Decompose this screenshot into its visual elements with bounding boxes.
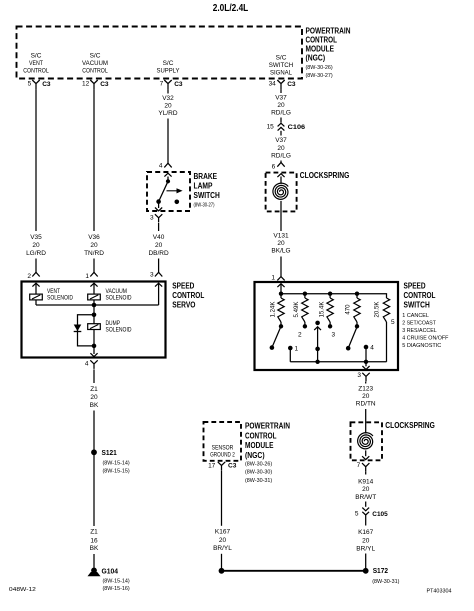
bus junction at R1 (279, 292, 283, 296)
svg-text:1 CANCEL: 1 CANCEL (402, 313, 429, 319)
svg-text:YL/RD: YL/RD (158, 110, 177, 117)
resistor 20.5K (383, 298, 389, 322)
svg-text:16: 16 (90, 537, 98, 544)
svg-text:3 RES/ACCEL: 3 RES/ACCEL (402, 328, 437, 334)
svg-text:CONTROL: CONTROL (23, 68, 49, 75)
resistor 470 (356, 294, 358, 298)
svg-text:CONTROL: CONTROL (404, 291, 436, 300)
clockspring (upper) box (266, 173, 297, 212)
svg-text:6: 6 (272, 163, 276, 170)
wire V40 from brake lamp switch to servo pin 3 (158, 223, 160, 231)
splice S121 (91, 449, 97, 455)
svg-text:DB/RD: DB/RD (148, 250, 169, 257)
svg-text:K167: K167 (215, 529, 231, 536)
contact 1 (288, 346, 293, 351)
svg-text:BK: BK (90, 545, 99, 552)
clockspring coil (lower) (358, 433, 373, 449)
svg-text:20: 20 (32, 242, 40, 249)
svg-text:C3: C3 (228, 463, 237, 470)
svg-text:C3: C3 (42, 81, 51, 88)
svg-text:20.5K: 20.5K (374, 302, 381, 318)
switch output wire to pin 3 (365, 362, 367, 367)
svg-text:20: 20 (90, 242, 98, 249)
svg-text:G104: G104 (102, 566, 119, 575)
svg-text:7: 7 (357, 462, 361, 469)
svg-text:15: 15 (267, 124, 275, 131)
bus junction at R3 (328, 292, 332, 296)
clockspring (lower) box (351, 422, 383, 460)
svg-text:S172: S172 (373, 566, 388, 575)
wire K914 lower segment (365, 502, 367, 507)
svg-text:S/C: S/C (31, 53, 42, 60)
svg-text:(8W-15-15): (8W-15-15) (103, 469, 130, 475)
PCM pin 17 connector C3 (lower) (218, 462, 225, 471)
svg-text:BR/YL: BR/YL (213, 545, 232, 552)
svg-text:C106: C106 (288, 124, 306, 131)
svg-text:3: 3 (150, 214, 154, 221)
svg-text:V32: V32 (162, 95, 174, 102)
svg-text:(NGC): (NGC) (245, 451, 265, 460)
switch top bus wire (281, 294, 387, 298)
svg-text:4: 4 (370, 344, 374, 351)
svg-text:C3: C3 (100, 81, 109, 88)
svg-text:BR/YL: BR/YL (356, 545, 375, 552)
svg-text:(8W-15-14): (8W-15-14) (103, 460, 130, 466)
svg-text:(8W-30-30): (8W-30-30) (245, 470, 272, 476)
svg-text:C105: C105 (372, 511, 388, 518)
svg-text:V35: V35 (30, 234, 42, 241)
svg-text:SERVO: SERVO (172, 301, 195, 310)
servo bus junction (92, 303, 97, 308)
wire K167 from PCM pin 17 (221, 471, 223, 526)
svg-text:SOLENOID: SOLENOID (47, 295, 73, 302)
servo pin 4 terminal (90, 360, 97, 369)
svg-text:20: 20 (90, 394, 98, 401)
svg-text:5.49K: 5.49K (293, 302, 300, 318)
resistor 20.5K lower lead (386, 322, 388, 362)
brake lamp switch pin 3 terminal (155, 214, 162, 222)
junction at splice bus (219, 568, 225, 574)
svg-text:2: 2 (27, 273, 31, 280)
wire V40 lower segment (158, 259, 160, 273)
svg-text:1: 1 (85, 273, 89, 280)
PCM pin 34 connector C3 (277, 80, 284, 89)
switch bottom bus wire (290, 361, 386, 363)
svg-text:7: 7 (160, 81, 164, 88)
svg-text:SWITCH: SWITCH (194, 191, 220, 200)
svg-text:(8W-30-31): (8W-30-31) (245, 478, 272, 484)
svg-text:1: 1 (271, 274, 275, 281)
svg-text:K167: K167 (358, 529, 374, 536)
wire V35 from PCM pin 5 to servo pin 2 (35, 89, 37, 231)
svg-text:2 SET/COAST: 2 SET/COAST (402, 321, 436, 327)
vent solenoid lead to bus (35, 300, 37, 305)
svg-text:1.24K: 1.24K (269, 302, 276, 318)
bottom bus junction at output (364, 360, 368, 364)
svg-text:(8W-30-26): (8W-30-26) (245, 461, 272, 467)
wire V131 lower segment (280, 257, 282, 277)
junction diode return (92, 344, 97, 349)
svg-text:20: 20 (155, 242, 163, 249)
clockspring pin 6 terminal (277, 163, 284, 167)
wire Z123 from switch pin 3 (365, 382, 367, 384)
wire Z1 lower segment (93, 554, 95, 568)
wire segment to C106 (280, 118, 282, 123)
svg-text:V36: V36 (88, 234, 100, 241)
wire Z1 from servo pin 4 (93, 369, 95, 383)
svg-text:CONTROL: CONTROL (306, 35, 338, 44)
svg-text:Z1: Z1 (90, 386, 98, 393)
svg-text:MODULE: MODULE (245, 441, 274, 450)
svg-text:20: 20 (362, 486, 370, 493)
PCM sensor ground box (powertrain control module, lower) (204, 422, 242, 461)
dump solenoid lead (93, 330, 95, 346)
svg-text:SUPPLY: SUPPLY (157, 68, 181, 75)
svg-text:CLOCKSPRING: CLOCKSPRING (385, 421, 435, 430)
vacuum solenoid (93, 283, 95, 294)
vacuum solenoid lead to bus (93, 300, 95, 305)
brake lamp switch internal: wire to pin 3 (158, 202, 160, 208)
svg-text:RD/LG: RD/LG (271, 110, 291, 117)
svg-text:20: 20 (277, 240, 285, 247)
svg-text:LG/RD: LG/RD (26, 250, 46, 257)
wire Z1 to splice S121 (93, 411, 95, 450)
wire V32 lower segment to brake lamp switch (167, 119, 169, 164)
brake lamp switch internal: switch arm (159, 181, 168, 201)
switch wiper contact (315, 321, 320, 326)
svg-text:S121: S121 (102, 448, 117, 457)
contact 4 wire to bottom bus (365, 347, 367, 362)
wire K167 lower segment (221, 554, 223, 571)
PCM pin 12 connector C3 (90, 80, 97, 89)
switch 4 (cruise on/off) arm (348, 327, 357, 348)
svg-text:K914: K914 (358, 479, 374, 486)
svg-text:SOLENOID: SOLENOID (106, 326, 132, 333)
wiper junction on bottom bus (315, 360, 319, 364)
svg-text:(8W-30-27): (8W-30-27) (306, 73, 333, 79)
splice bus wire to S172 (222, 570, 366, 572)
wire segment below C105 (365, 515, 367, 525)
svg-text:BK/LG: BK/LG (271, 248, 290, 255)
servo wire to pin 4 (93, 346, 95, 354)
servo pin 3 internal wire (158, 283, 160, 305)
wire Z123 to clockspring (365, 409, 367, 434)
svg-text:SWITCH: SWITCH (269, 62, 294, 69)
svg-text:C3: C3 (287, 81, 296, 88)
resistor 5.49K (304, 294, 306, 298)
svg-text:3: 3 (150, 272, 154, 279)
svg-text:POWERTRAIN: POWERTRAIN (306, 27, 351, 36)
wire K914 from clockspring pin 7 (365, 472, 367, 475)
speed control servo box (22, 282, 166, 358)
wire V35 lower segment (35, 259, 37, 273)
svg-text:5 DIAGNOSTIC: 5 DIAGNOSTIC (402, 343, 442, 349)
wire V37 from PCM pin 34 (280, 89, 282, 93)
svg-text:20: 20 (219, 537, 227, 544)
svg-text:BK: BK (90, 402, 99, 409)
svg-text:(8W-30-31): (8W-30-31) (372, 579, 399, 585)
svg-text:5: 5 (355, 511, 359, 518)
switch pin 3 terminal (362, 373, 369, 382)
svg-text:SIGNAL: SIGNAL (270, 70, 292, 77)
svg-text:V37: V37 (275, 94, 287, 101)
svg-text:(8W-30-26): (8W-30-26) (306, 65, 333, 71)
servo pin 3 terminal (155, 272, 162, 276)
diode (74, 325, 82, 332)
svg-text:CONTROL: CONTROL (245, 431, 277, 440)
svg-text:5: 5 (391, 319, 395, 326)
svg-text:2.0L/2.4L: 2.0L/2.4L (213, 3, 249, 14)
svg-text:CLOCKSPRING: CLOCKSPRING (300, 171, 350, 180)
dump solenoid (93, 315, 95, 324)
svg-text:20: 20 (277, 102, 285, 109)
svg-text:VENT: VENT (29, 60, 43, 67)
svg-text:20: 20 (362, 538, 370, 545)
svg-text:SOLENOID: SOLENOID (106, 295, 132, 302)
speed control switch pin 1 terminal (277, 277, 284, 281)
svg-text:2: 2 (298, 331, 302, 338)
in-line connector C105 pin 5 (362, 508, 369, 511)
svg-text:4: 4 (159, 163, 163, 170)
svg-text:SWITCH: SWITCH (404, 301, 430, 310)
wire V36 lower segment (93, 259, 95, 273)
clockspring coil (upper) (280, 177, 282, 184)
svg-text:S/C: S/C (276, 55, 287, 62)
brake lamp switch internal: input contact (167, 177, 169, 182)
svg-text:17: 17 (208, 462, 216, 469)
svg-text:(8W-15-14): (8W-15-14) (103, 579, 130, 585)
svg-text:Z1: Z1 (90, 529, 98, 536)
wire segment to clockspring pin 6 (280, 161, 282, 163)
wire V36 from PCM pin 12 to servo pin 1 (93, 89, 95, 231)
contact 1 wire to bottom bus (289, 348, 291, 362)
bus junction at R4 (355, 292, 359, 296)
wire V131 from clockspring to speed control switch (280, 212, 282, 232)
PCM connector C3 box (powertrain control module, top) (17, 27, 303, 79)
svg-text:V131: V131 (273, 233, 289, 240)
brake lamp switch internal: open contact (175, 200, 180, 205)
svg-text:PT403304: PT403304 (427, 588, 453, 594)
in-line connector C106 pin 15 (278, 123, 285, 126)
svg-text:12: 12 (82, 81, 90, 88)
brake lamp switch box (147, 172, 190, 211)
ground G104 (91, 568, 97, 574)
svg-text:BR/WT: BR/WT (355, 494, 376, 501)
svg-text:POWERTRAIN: POWERTRAIN (245, 421, 290, 430)
wire Z1 from S121 to G104 (93, 452, 95, 526)
splice S172 (363, 568, 369, 574)
svg-text:SPEED: SPEED (172, 281, 194, 290)
resistor 1.24K (280, 294, 282, 298)
svg-text:C3: C3 (174, 81, 183, 88)
svg-text:V37: V37 (275, 137, 287, 144)
svg-text:Z123: Z123 (358, 386, 373, 393)
svg-text:(8W-30-27): (8W-30-27) (194, 202, 215, 208)
svg-text:20: 20 (277, 145, 285, 152)
svg-text:20: 20 (362, 393, 370, 400)
contact 4 (364, 345, 369, 350)
svg-text:S/C: S/C (90, 53, 101, 60)
PCM pin 7 connector C3 (164, 80, 171, 89)
diode branch wire (78, 315, 95, 346)
servo pin 1 terminal (90, 272, 97, 276)
brake lamp switch pin 4 terminal (164, 163, 171, 167)
wire segment below C106 (280, 131, 282, 136)
svg-text:RD/TN: RD/TN (356, 401, 376, 408)
clockspring pin 7 exit (362, 456, 369, 459)
switch wiper arm with arrow (314, 327, 321, 330)
svg-text:4: 4 (85, 360, 89, 367)
svg-text:SPEED: SPEED (404, 281, 426, 290)
wire V32 from PCM pin 7 (167, 89, 169, 93)
svg-text:(NGC): (NGC) (306, 53, 326, 62)
svg-text:LAMP: LAMP (194, 182, 214, 191)
svg-text:470: 470 (345, 304, 352, 315)
svg-text:1: 1 (295, 345, 299, 352)
svg-text:34: 34 (269, 81, 277, 88)
svg-text:V40: V40 (153, 234, 165, 241)
resistor 15.4K (329, 294, 331, 298)
svg-text:BRAKE: BRAKE (194, 172, 218, 181)
svg-text:RD/LG: RD/LG (271, 152, 291, 159)
bus junction at R2 (303, 292, 307, 296)
svg-text:3: 3 (331, 331, 335, 338)
svg-text:5: 5 (28, 81, 32, 88)
servo internal bus wire (36, 304, 159, 306)
svg-text:MODULE: MODULE (306, 44, 335, 53)
svg-text:4 CRUISE ON/OFF: 4 CRUISE ON/OFF (402, 335, 448, 341)
wire K167 to splice S172 (365, 554, 367, 570)
svg-text:VACUUM: VACUUM (82, 60, 108, 67)
svg-text:TN/RD: TN/RD (84, 250, 104, 257)
svg-text:S/C: S/C (163, 60, 174, 67)
switch 1 (cancel) arm (272, 326, 281, 347)
brake lamp switch internal: actuator arrow (167, 190, 177, 192)
svg-text:3: 3 (357, 372, 361, 379)
svg-text:CONTROL: CONTROL (172, 291, 204, 300)
vent solenoid (35, 283, 37, 294)
junction dump/diode (92, 313, 97, 318)
svg-text:048W-12: 048W-12 (9, 587, 36, 593)
svg-text:GROUND 2: GROUND 2 (210, 451, 235, 458)
svg-text:(8W-15-16): (8W-15-16) (103, 586, 130, 592)
svg-text:20: 20 (164, 103, 172, 110)
switch internal wire from pin 1 (280, 284, 282, 294)
svg-text:CONTROL: CONTROL (82, 68, 108, 75)
svg-text:15.4K: 15.4K (318, 302, 325, 318)
servo pin 2 terminal (32, 272, 39, 276)
speed control switch box (255, 282, 399, 370)
PCM pin 5 connector C3 (32, 80, 39, 89)
wire bus to dump branch (93, 305, 95, 315)
